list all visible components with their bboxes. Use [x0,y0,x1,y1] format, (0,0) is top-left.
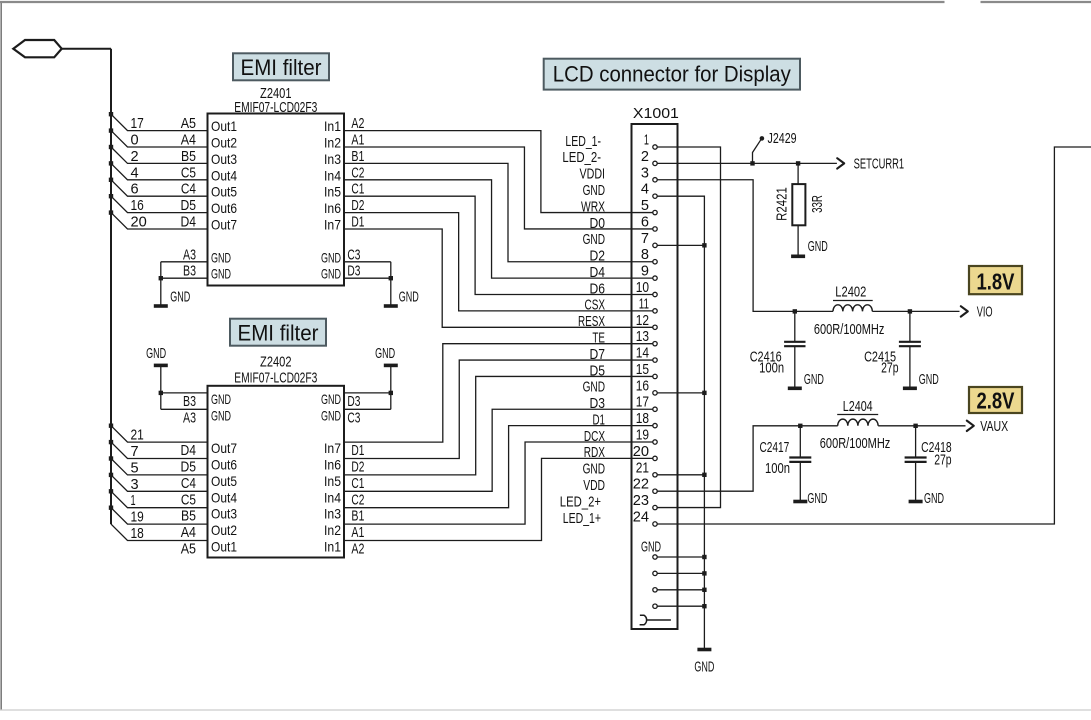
X1001 pin 8 circle [653,260,657,264]
test point J2429 [753,140,761,164]
svg-text:600R/100MHz: 600R/100MHz [820,435,891,452]
wire net D3 to Z2402 GND [344,392,391,394]
svg-text:17: 17 [131,115,144,132]
X1001 GND pin circle 2 [653,571,657,575]
svg-text:C2417: C2417 [760,439,790,456]
ground symbol below C2416 [788,386,802,390]
X1001 pin 16 circle [653,391,657,395]
wire X1001 pin 24 LED_1+ off-sheet [657,147,1091,524]
junction B3/GND [159,276,163,280]
svg-text:27p: 27p [881,360,898,377]
junction C2417 top [798,424,802,428]
svg-text:EMI filter: EMI filter [238,321,319,346]
svg-text:GND: GND [641,538,661,555]
wire branch 3 / net C5 to Z2402 Out4 [111,475,208,491]
bus junction for net C4 [109,178,113,182]
X1001 pin 19 circle [653,440,657,444]
svg-text:27p: 27p [934,452,951,469]
X1001 pin 9 circle [653,276,657,280]
arrow VAUX [967,421,974,431]
svg-text:DCX: DCX [584,428,605,445]
wire net SETCURR1 from X1001 pin 2 [657,162,837,164]
wire branch 6 / net C4 to Z2401 Out5 [111,180,208,196]
svg-text:GND: GND [583,379,606,396]
vertical bus wire [110,49,112,524]
ground symbol right of Z2402 [384,364,398,368]
junction J2429 tap [750,161,754,165]
svg-text:B5: B5 [181,148,196,165]
inductor L2402 [833,305,872,312]
svg-text:GND: GND [211,249,231,265]
X1001 pin 5 circle [653,210,657,214]
svg-text:D3: D3 [347,263,360,280]
wire net VDD from X1001 pin 22 to VAUX rail [657,426,838,491]
EMI filter title box 2 [230,319,326,346]
svg-text:In1: In1 [324,118,341,134]
svg-text:33R: 33R [809,195,826,213]
svg-text:19: 19 [131,509,144,526]
capacitor C2418 [915,426,917,458]
wire branch 7 / net D5 to Z2402 Out6 [111,442,208,458]
bus junction for net A5 [109,112,113,116]
wire branch 4 / net C5 to Z2401 Out4 [111,163,208,179]
svg-text:3: 3 [131,476,139,493]
wire net C2 from Z2402 In4 to X1001 pin 17 [344,409,653,491]
wire X1001 pin 1 LED_1- to pin 23 LED_2+ [657,147,720,508]
svg-text:A5: A5 [181,115,196,132]
wire R2421 to GND [797,225,799,256]
svg-text:20: 20 [131,214,147,231]
ground symbol right of Z2401 [384,304,398,308]
svg-text:6: 6 [641,213,649,230]
bus junction for net D4 [109,210,113,214]
svg-text:A1: A1 [351,524,364,541]
X1001 pin 3 circle [653,178,657,182]
wire X1001 pin 7 to GND bus [657,244,704,246]
X1001 pin 10 circle [653,292,657,296]
X1001 pin 21 circle [653,473,657,477]
wire branch 2 / net B5 to Z2401 Out3 [111,147,208,163]
svg-text:GND: GND [146,345,166,362]
junction C2418 top [913,424,917,428]
X1001 pin 13 circle [653,341,657,345]
ground symbol left of Z2401 [154,304,168,308]
svg-text:15: 15 [636,361,649,378]
X1001 pin 23 circle [653,505,657,509]
bus junction for net A4 [109,506,113,510]
svg-text:21: 21 [131,427,144,444]
wire net D2 from Z2401 In6 to X1001 pin 11 [344,213,653,311]
wire net C3 to Z2402 GND [344,408,391,410]
svg-text:A4: A4 [181,524,196,541]
svg-text:D2: D2 [351,197,364,214]
svg-text:D1: D1 [351,442,364,459]
svg-text:13: 13 [636,328,649,345]
svg-text:L2404: L2404 [843,398,873,415]
component body Z2401 [208,114,345,286]
wire GND drop right of Z2401 [390,262,392,306]
wire net B1 from Z2401 In3 to X1001 pin 8 [344,163,653,261]
svg-text:GND: GND [807,490,827,507]
wire branch 21 / net D4 to Z2402 Out7 [111,426,208,442]
ground symbol below C2415 [903,386,917,390]
svg-text:LED_2+: LED_2+ [560,493,601,510]
X1001 pin 24 circle [653,522,657,526]
svg-text:C3: C3 [347,246,360,263]
svg-text:D5: D5 [590,362,606,379]
svg-text:RESX: RESX [578,313,605,330]
wire branch 19 / net A4 to Z2402 Out2 [111,508,208,524]
svg-text:Out6: Out6 [211,200,237,216]
svg-text:21: 21 [636,459,649,476]
X1001 pin 14 circle [653,358,657,362]
X1001 pin 20 circle [653,456,657,460]
svg-text:GND: GND [211,391,231,407]
svg-text:11: 11 [639,295,649,312]
ground symbol below C2418 [909,500,923,504]
svg-text:D0: D0 [590,215,606,232]
ground symbol below R2421 [791,254,805,258]
wire net A1 from Z2402 In2 to X1001 pin 19 [344,442,653,524]
junction C2415 top [908,309,912,313]
junction GND bus pin 21 [702,473,706,477]
svg-text:In6: In6 [324,200,341,216]
wire GND drop left of Z2401 [160,262,162,306]
junction GND bus pin 16 [702,391,706,395]
svg-text:B3: B3 [183,393,196,410]
svg-text:GND: GND [583,182,606,199]
svg-text:C1: C1 [351,475,364,492]
svg-text:X1001: X1001 [633,105,679,122]
svg-text:4: 4 [641,181,649,198]
svg-text:In6: In6 [324,457,341,473]
capacitor C2417 [799,426,801,458]
svg-text:5: 5 [641,197,649,214]
svg-text:D3: D3 [347,393,360,410]
wire GND drop left of Z2402 [160,365,162,409]
svg-text:Out6: Out6 [211,457,237,473]
svg-text:VDDI: VDDI [580,166,606,183]
svg-text:SETCURR1: SETCURR1 [854,155,905,172]
svg-text:Out4: Out4 [211,489,237,505]
svg-text:GND: GND [804,371,824,388]
X1001 pin 12 circle [653,325,657,329]
svg-text:A5: A5 [181,541,196,558]
bus junction for net C5 [109,161,113,165]
svg-text:D2: D2 [590,248,606,265]
wire X1001 GND pin 1 to GND bus [657,556,704,558]
svg-text:1: 1 [131,492,136,509]
X1001 pin 7 circle [653,243,657,247]
svg-text:In3: In3 [324,151,341,167]
svg-text:Out2: Out2 [211,135,237,151]
svg-text:LED_1+: LED_1+ [563,510,601,527]
wire net C1 from Z2401 In5 to X1001 pin 10 [344,196,653,294]
junction D3/GND [389,276,393,280]
svg-text:TE: TE [592,329,605,346]
bus junction for net B5 [109,145,113,149]
wire branch 0 / net A4 to Z2401 Out2 [111,131,208,147]
svg-text:A1: A1 [351,132,364,149]
X1001 pin 17 circle [653,407,657,411]
svg-text:GND: GND [375,345,395,362]
svg-text:GND: GND [808,238,828,255]
svg-text:In2: In2 [324,522,341,538]
wire net D1 from Z2402 In7 to X1001 pin 13 [344,344,653,442]
bus junction for net A4 [109,128,113,132]
connector body X1001 [632,124,678,629]
svg-text:B5: B5 [181,508,196,525]
wire net C3 to Z2401 GND [344,261,391,263]
svg-text:Out5: Out5 [211,184,237,200]
wire net A2 from Z2401 In1 to X1001 pin 5 [344,131,653,213]
svg-text:C2: C2 [351,164,364,181]
svg-text:EMI filter: EMI filter [241,55,322,80]
arrow SETCURR1 [837,158,844,168]
svg-text:L2402: L2402 [835,284,866,301]
wire net D3 to Z2401 GND [344,277,391,279]
svg-text:7: 7 [131,443,139,460]
arrow VIO [961,306,968,316]
svg-text:In2: In2 [324,135,341,151]
svg-text:D4: D4 [590,264,606,281]
svg-text:GND: GND [211,266,231,282]
svg-text:In5: In5 [324,473,341,489]
svg-text:19: 19 [636,427,649,444]
svg-text:CSX: CSX [585,297,606,314]
svg-text:D1: D1 [593,411,606,428]
X1001 GND pin circle 4 [653,604,657,608]
svg-text:GND: GND [170,289,190,306]
wire net A2 from Z2402 In1 to X1001 pin 20 [344,458,653,540]
X1001 GND pin circle 3 [653,588,657,592]
svg-text:GND: GND [924,490,944,507]
bus junction for net B5 [109,489,113,493]
svg-text:GND: GND [583,461,606,478]
wire L2404 to VAUX arrow [878,425,916,427]
svg-text:7: 7 [641,230,649,247]
junction GND bus 3 [702,588,706,592]
svg-text:Out7: Out7 [211,440,237,456]
power label 1.8V box [969,266,1022,294]
svg-text:GND: GND [399,289,419,306]
junction C2416 top [793,309,797,313]
svg-text:16: 16 [131,197,144,214]
wire branch 17 / net A5 to Z2401 Out1 [111,114,208,130]
ground symbol below GND bus [697,648,711,652]
svg-text:LCD connector for Display: LCD connector for Display [553,61,791,86]
resistor R2421 [792,184,805,225]
svg-text:5: 5 [131,459,139,476]
svg-text:8: 8 [641,246,649,263]
svg-text:A4: A4 [181,132,196,149]
X1001 pin 11 circle [653,309,657,313]
wire net B1 from Z2402 In3 to X1001 pin 18 [344,426,653,508]
wire X1001 GND pin 3 to GND bus [657,589,704,591]
svg-text:C4: C4 [181,475,196,492]
svg-text:In7: In7 [324,217,341,233]
X1001 pin 2 circle [653,161,657,165]
wire branch 16 / net D5 to Z2401 Out6 [111,196,208,212]
wire branch 20 / net D4 to Z2401 Out7 [111,213,208,229]
X1001 pin 6 circle [653,227,657,231]
svg-text:3: 3 [641,164,649,181]
off-sheet connector symbol [13,40,61,57]
svg-text:J2429: J2429 [768,130,797,147]
wire branch 18 / net A5 to Z2402 Out1 [111,524,208,540]
svg-text:C5: C5 [181,164,196,181]
svg-text:VIO: VIO [977,304,993,321]
wire to VAUX arrow [916,425,966,427]
svg-text:2.8V: 2.8V [977,388,1016,414]
wire X1001 pin 16 to GND bus [657,392,704,394]
svg-text:GND: GND [919,371,939,388]
svg-text:In4: In4 [324,489,341,505]
svg-text:D4: D4 [181,214,197,231]
bus junction for net D5 [109,440,113,444]
wire net A3 to Z2401 GND [161,261,208,263]
svg-text:A2: A2 [351,115,364,132]
wire branch 1 / net B5 to Z2402 Out3 [111,491,208,507]
svg-text:LED_2-: LED_2- [562,149,601,166]
junction B3/GND Z2402 [159,391,163,395]
wire net C1 from Z2402 In5 to X1001 pin 15 [344,376,653,474]
junction GND bus 1 [702,555,706,559]
svg-text:1.8V: 1.8V [977,269,1016,295]
svg-text:Z2402: Z2402 [260,354,292,371]
svg-text:D1: D1 [351,214,364,231]
wire net D2 from Z2402 In6 to X1001 pin 14 [344,360,653,458]
svg-text:9: 9 [641,263,649,280]
wire net VDDI from X1001 pin 3 to VIO rail [657,180,833,312]
junction GND bus 4 [702,604,706,608]
capacitor C2415 [909,311,911,341]
svg-text:Out7: Out7 [211,217,237,233]
X1001 pin 18 circle [653,423,657,427]
bus junction for net C4 [109,456,113,460]
svg-text:GND: GND [321,249,341,265]
wire branch 5 / net C4 to Z2402 Out5 [111,459,208,475]
svg-text:4: 4 [131,164,139,181]
svg-text:VDD: VDD [583,477,605,494]
svg-text:GND: GND [321,407,341,423]
svg-text:100n: 100n [765,460,790,477]
capacitor C2416 [794,311,796,341]
bus junction for net D4 [109,424,113,428]
svg-text:In1: In1 [324,539,341,555]
wire GND drop right of Z2402 [390,365,392,409]
X1001 pin 22 circle [653,489,657,493]
wire to VIO arrow [910,310,960,312]
ground symbol left of Z2402 [154,364,168,368]
svg-text:C2: C2 [351,491,364,508]
svg-text:2: 2 [131,148,139,165]
svg-text:C4: C4 [181,181,196,198]
wire SETCURR1 to R2421 [797,163,799,184]
X1001 pin 4 circle [653,194,657,198]
svg-text:24: 24 [633,508,649,525]
junction GND bus pin 7 [702,243,706,247]
junction D3/GND Z2402 [389,391,393,395]
svg-text:100n: 100n [759,360,784,377]
svg-text:Out4: Out4 [211,167,237,183]
svg-text:B1: B1 [351,148,364,165]
svg-text:18: 18 [636,410,649,427]
wire net A3 to Z2402 GND [161,408,208,410]
bus junction for net C5 [109,473,113,477]
X1001 shield pin symbol [640,615,647,625]
svg-text:Out1: Out1 [211,539,237,555]
svg-text:12: 12 [636,312,649,329]
svg-text:1: 1 [644,132,649,149]
svg-text:Out3: Out3 [211,506,237,522]
wire net B3 to Z2402 GND [161,392,208,394]
svg-text:Out5: Out5 [211,473,237,489]
wire net B3 to Z2401 GND [161,277,208,279]
svg-text:10: 10 [636,279,649,296]
svg-text:14: 14 [636,345,649,362]
X1001 GND pin circle 1 [653,555,657,559]
X1001 pin 15 circle [653,374,657,378]
wire net A1 from Z2401 In2 to X1001 pin 6 [344,147,653,229]
svg-text:In7: In7 [324,440,341,456]
svg-text:2: 2 [641,148,649,165]
svg-text:In3: In3 [324,506,341,522]
svg-text:18: 18 [131,525,144,542]
svg-text:WRX: WRX [581,198,605,215]
svg-text:A3: A3 [183,410,196,427]
svg-text:16: 16 [636,377,649,394]
svg-text:A2: A2 [351,541,364,558]
bus junction for net D5 [109,194,113,198]
svg-text:D5: D5 [181,197,197,214]
wire net D1 from Z2401 In7 to X1001 pin 12 [344,229,653,327]
svg-text:B1: B1 [351,508,364,525]
svg-text:EMIF07-LCD02F3: EMIF07-LCD02F3 [234,370,317,387]
svg-text:R2421: R2421 [774,187,791,221]
svg-text:RDX: RDX [584,444,605,461]
svg-text:GND: GND [694,659,714,676]
svg-text:GND: GND [583,231,606,248]
svg-text:17: 17 [636,394,649,411]
svg-text:600R/100MHz: 600R/100MHz [814,321,885,338]
svg-text:C1: C1 [351,181,364,198]
component body Z2402 [208,386,345,558]
svg-text:D7: D7 [590,346,606,363]
svg-text:0: 0 [131,132,139,149]
wire net C2 from Z2401 In4 to X1001 pin 9 [344,180,653,278]
svg-text:GND: GND [321,266,341,282]
svg-text:Out1: Out1 [211,118,237,134]
svg-text:GND: GND [211,407,231,423]
svg-text:VAUX: VAUX [980,418,1008,435]
svg-text:23: 23 [633,492,649,509]
svg-text:Out3: Out3 [211,151,237,167]
svg-text:D3: D3 [590,395,606,412]
power label 2.8V box [969,387,1022,413]
svg-text:GND: GND [321,391,341,407]
svg-text:D4: D4 [181,442,197,459]
svg-text:LED_1-: LED_1- [565,133,601,150]
junction R2421 top [796,161,800,165]
wire L2402 to VIO arrow [872,310,910,312]
X1001 pin 1 circle [653,145,657,149]
junction GND bus 2 [702,571,706,575]
svg-text:B3: B3 [183,263,196,280]
svg-text:Out2: Out2 [211,522,237,538]
svg-text:In5: In5 [324,184,341,200]
svg-text:D2: D2 [351,459,364,476]
